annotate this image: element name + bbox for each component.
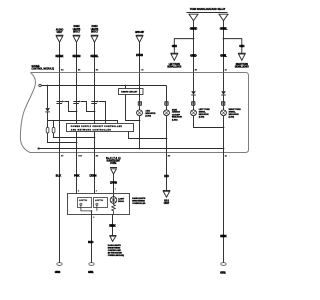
transistor Q1 [57,102,64,104]
svg-text:GRN: GRN [172,44,177,48]
junction Q1 branch [76,111,78,113]
wire: diode branch down [47,86,49,109]
connector triangle: relay right output [219,14,228,21]
junction drive output on LED1 wire [139,120,141,122]
connector triangle: relay left output [189,14,198,21]
connector triangle: dash lights 2 [91,35,99,42]
wire: R2 tail [54,133,95,138]
connector triangle: dash lights 1 [73,35,81,42]
svg-text:B8: B8 [96,155,98,157]
sub-box: switch 1 [78,198,92,208]
wire: abs unit to module pin 49 [139,42,141,72]
junction on bus at abs wire [139,85,141,87]
svg-text:2: 2 [93,217,94,219]
wire: controller box bottom pin B8 [94,132,96,153]
wire: relay right to module [223,21,225,73]
dash lights brightness controller box [68,194,130,215]
ground G502 [221,263,226,266]
svg-text:BULB: BULB [118,201,124,203]
transistor Q2 [73,102,80,104]
wire: LED3 to join LED4 wire [194,116,224,128]
wire: controller box output L to LED2 wire [129,132,167,139]
svg-text:BRT CT: BRT CT [73,31,81,33]
wire: R1 tail [48,133,77,143]
svg-text:(LED): (LED) [229,116,235,118]
svg-text:AUTO: AUTO [95,199,103,202]
svg-text:AIRBAG: AIRBAG [172,111,180,114]
wire: pin B5 down into controller box [94,73,96,124]
label: right turn signal indicator [229,109,241,119]
wire: diode to resistor R1 [47,112,49,128]
connector triangle: audio unit [56,35,64,42]
note: dash lights brightness controller in gauge module [108,244,124,257]
wire: abs pin 49 down through drive circuit [139,73,141,102]
svg-text:B10: B10 [78,155,81,157]
svg-text:GRN/YEL: GRN/YEL [220,26,228,30]
wire: 44 to ground G502 [223,153,225,263]
svg-text:GRN: GRN [239,44,244,48]
LED1: abs indicator [137,110,143,116]
wire: coil to LED4 [223,106,225,110]
bulb: brightness controller lamp [110,197,117,204]
wire: LED1 to bottom bus [139,116,141,149]
wire: relay left inside module [193,73,195,92]
wire: internal link to controller box [48,121,118,124]
svg-text:FUSE: FUSE [110,163,116,165]
wire: bottom bus [39,148,224,150]
junction Q2 branch [94,111,96,113]
internal wires to ground pin [81,205,97,211]
junction LED4 bottom bus [223,148,225,150]
bulb contact 1 [80,203,82,205]
wire: fuse to brightness controller pin 1 [113,174,115,194]
coil: abs indicator resistor [138,101,141,106]
svg-text:INDICATOR: INDICATOR [172,116,182,119]
svg-text:(LED): (LED) [145,116,151,118]
svg-text:CONTROL MODULE): CONTROL MODULE) [32,69,55,71]
svg-text:B6: B6 [78,70,80,72]
ground G501 [89,263,94,266]
diode D3 [221,91,226,94]
wire: relay right inside module [223,73,225,92]
svg-text:AND NETWORK CONTROLLER: AND NETWORK CONTROLLER [71,128,112,131]
wire: LED4 down to module bottom exit [223,116,225,153]
svg-text:LT GRN: LT GRN [136,53,143,57]
svg-text:RED/BLK: RED/BLK [109,224,116,228]
coil: side airbag indicator resistor [165,101,168,106]
wire: dash lights 1 to module pin B6 [76,42,78,72]
connector triangle: to SRS unit [163,191,171,198]
junction: right relay branch [223,38,225,40]
svg-text:G501: G501 [88,270,94,274]
connector: dash lights brightness label 2 [91,25,99,33]
wire: dash lights 2 to module pin B5 [94,42,96,72]
svg-text:DRIVE CIRCUIT: DRIVE CIRCUIT [121,91,138,93]
svg-text:B5: B5 [96,70,98,72]
svg-text:SIGNAL LIGHTS: SIGNAL LIGHTS [235,65,249,68]
svg-text:RED/BLK: RED/BLK [220,234,227,238]
wire: Q1 branch to B6 wire [64,102,76,112]
svg-text:PNK: PNK [74,174,80,178]
resistor R2 [52,128,55,133]
svg-text:RED/YEL: RED/YEL [91,54,99,58]
wire: coil to LED3 [193,106,195,110]
LED2: side airbag cutoff indicator [164,110,170,116]
svg-text:UNIT: UNIT [164,203,170,205]
label: SRS unit [164,201,170,206]
wire: pin 1 into bulb [113,194,115,197]
svg-text:CONTROLLER: CONTROLLER [132,203,145,205]
junction: left relay branch [193,38,195,40]
connector: audio unit label [56,29,64,35]
bulb contact 2 [96,203,98,205]
connector triangle: to dash lights brightness controller [109,236,116,242]
label: abs indicator [145,110,155,118]
svg-text:BLK: BLK [56,174,62,178]
junction LED3/LED4 [223,127,225,129]
gauge control module box outline with torn left edge [30,73,249,153]
svg-text:LT GRN: LT GRN [90,174,97,178]
connector triangle: from fuse [110,168,117,174]
wire: controller to ground G501 [91,211,93,263]
junction controller output [166,138,168,140]
svg-text:SIGNAL LIGHTS: SIGNAL LIGHTS [167,65,181,68]
microprocessor box: power supply / network controller [67,124,134,132]
wire: bus corner to LED2 [166,86,168,102]
svg-text:AUDIO: AUDIO [56,29,64,32]
svg-text:AUTO: AUTO [79,199,87,202]
wire: R2 stub [53,121,55,128]
wire: B7 to ground [59,153,61,263]
svg-text:RED: RED [164,174,169,178]
svg-text:G502: G502 [220,271,226,275]
svg-text:CONTROL MODULE): CONTROL MODULE) [108,255,124,257]
svg-text:DASH: DASH [92,25,98,28]
wire: branch to right turn signal lights [224,39,242,54]
connector triangle: to right turn signal lights [238,53,246,60]
wire: relay left to module [193,21,195,73]
LED3: left turn signal indicator [191,110,197,116]
drive circuit box [119,89,144,95]
connector triangle: abs unit [136,35,144,42]
wire: D3 to coil [223,95,225,101]
label: right turn signal lights [235,64,249,69]
wire: pin B4 down through module to bottom [59,73,61,153]
connector: dash lights brightness label 1 [73,25,81,33]
wire: controller box bottom pin B10 [76,132,78,153]
wire: branch to left turn signal lights [174,39,193,54]
svg-text:UNIT: UNIT [57,32,63,34]
svg-text:B9: B9 [168,155,170,157]
wire: bus stub into drive circuit and to LED1 wire [126,86,140,121]
svg-text:G503: G503 [55,270,61,274]
svg-text:GAUGE: GAUGE [32,65,40,68]
splice dot: bottom bus start [38,147,40,149]
resistor R1 [46,128,49,133]
wire: bulb resistor down to note [112,214,114,236]
coil: right turn indicator resistor [222,101,225,106]
wire: D2 to coil [193,95,195,101]
junction on bus at diode branch [47,85,49,87]
diode D2 [191,91,196,94]
svg-text:DASH: DASH [74,25,80,28]
wire: internal supply bus [41,85,166,87]
label: left turn signal indicator [199,109,210,119]
wire: B10 down to brightness controller pin 4 [76,153,78,194]
svg-text:LT GRN: LT GRN [110,180,117,184]
junction R2 tail [94,137,96,139]
svg-text:TURN SIGNAL/HAZARD RELAY: TURN SIGNAL/HAZARD RELAY [190,8,226,11]
junction on bus at drive circuit stub [125,85,127,87]
ground G503 [57,263,62,266]
svg-text:RED: RED [88,240,94,244]
svg-text:RED/BLK: RED/BLK [56,54,64,58]
connector triangle: to left turn signal lights [170,53,178,60]
fuse note label [106,157,121,165]
wire: coil to LED1 [139,106,141,110]
LED4: right turn signal indicator [221,110,227,116]
junction LED1 on bottom bus [139,148,141,150]
splice circle: internal supply bus [39,84,41,86]
diode D1 [45,108,50,111]
label: dash lights brightness controller [132,197,146,205]
wire: B9 to SRS unit [166,153,168,191]
svg-text:ABS UNIT: ABS UNIT [135,31,145,34]
label: left turn signal lights [167,64,181,69]
svg-text:(LED): (LED) [199,116,205,118]
wire: Q2 branch to B5 wire [81,102,94,112]
resistor: bulb zigzag [112,203,116,215]
sub-box: switch 2 [94,198,108,208]
svg-text:49: 49 [141,68,143,71]
svg-text:BRT CT: BRT CT [91,31,99,33]
svg-text:GRN/RED: GRN/RED [190,26,198,30]
wire: Q3 branch into controller box [99,102,105,124]
turn signal/hazard relay bar [187,12,228,14]
svg-text:(LED): (LED) [172,119,178,121]
svg-text:B7: B7 [61,155,63,157]
junction R1 tail [76,142,78,144]
svg-text:1: 1 [115,189,116,191]
svg-text:GRN/RED: GRN/RED [190,54,197,58]
wire: B8 down to brightness controller pin 3 [94,153,96,194]
wire: pin B6 down into controller box [76,73,78,124]
svg-text:3: 3 [96,191,97,193]
svg-text:DASH LIGHTS: DASH LIGHTS [132,197,146,200]
torn edge curve [20,73,35,153]
svg-text:GRN/YEL: GRN/YEL [220,54,227,58]
wire: audio unit to module pin B4 [59,42,61,72]
wire: LED2 down to module bottom exit [166,116,168,153]
coil: left turn indicator resistor [192,101,195,106]
svg-text:B3: B3 [195,69,197,71]
svg-text:POWER SUPPLY CIRCUIT CONTROLLE: POWER SUPPLY CIRCUIT CONTROLLER [71,126,123,128]
transistor Q3 [91,102,98,104]
wire: coil to LED2 [166,106,168,110]
svg-text:RED/GRN: RED/GRN [73,54,81,58]
label: side airbag cutoff indicator [172,109,182,121]
